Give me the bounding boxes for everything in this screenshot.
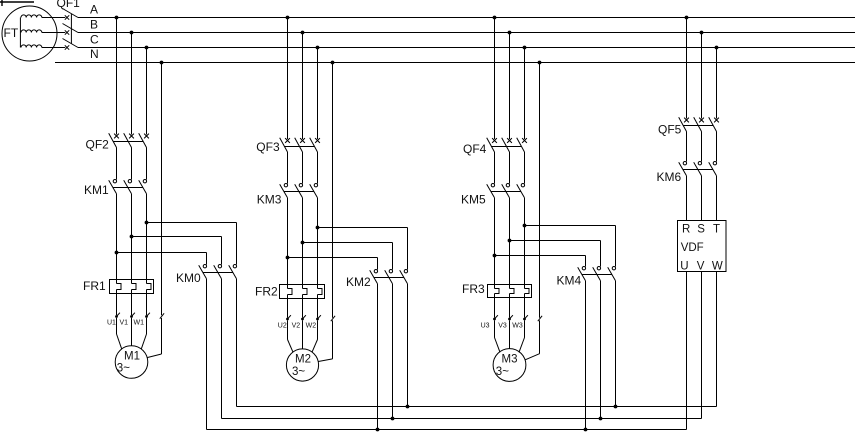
wire bus U bottom (207, 429, 687, 431)
circuit breaker QF5 (658, 117, 719, 136)
svg-text:A: A (90, 3, 98, 17)
frame corner mark (0, 0, 34, 6)
node branch3 A tap (493, 16, 497, 20)
node M1 terminals U1 V1 W1 (107, 313, 150, 327)
wire branch3 phase A drop (494, 18, 496, 140)
wire QF5 to KM6 (687, 132, 717, 162)
circuit breaker QF1 (57, 0, 81, 50)
wire bus C (78, 33, 855, 48)
svg-text:M3: M3 (502, 354, 518, 366)
wire VDF V output (701, 271, 703, 419)
node branch2 N slash (331, 316, 335, 321)
circuit breaker QF2 (86, 133, 149, 151)
wire VDF U output (686, 271, 688, 430)
wire VDF W output (716, 271, 718, 407)
svg-text:M1: M1 (124, 351, 140, 363)
svg-text:FT: FT (4, 26, 19, 40)
wire branch3 A to KM4 pole1 (495, 256, 586, 267)
wire M1 leads (117, 318, 147, 349)
svg-text:U: U (680, 261, 688, 273)
wire branch2 phase C drop (317, 48, 319, 140)
node branch1 A tap (115, 16, 119, 20)
svg-text:KM1: KM1 (84, 183, 109, 197)
wire M3 leads (495, 320, 525, 352)
svg-text:W: W (712, 261, 723, 273)
node branch1 B tap (130, 31, 134, 35)
wire branch3 phase B drop (509, 33, 511, 140)
svg-text:QF1: QF1 (57, 0, 81, 10)
svg-text:V: V (697, 261, 705, 273)
wire KM1 to FR1 (117, 194, 147, 284)
node KM2-V junction (391, 417, 395, 421)
node branch3 tap C2 (523, 224, 527, 228)
node branch2 tap C2 (316, 226, 320, 230)
contactor KM1 (84, 180, 147, 198)
svg-text:W3: W3 (512, 323, 523, 330)
wire bus N (55, 47, 855, 63)
wire QF4 to KM5 (495, 152, 525, 184)
node branch3 N slash (538, 316, 542, 321)
wire branch1 phase B drop (131, 33, 133, 135)
motor M3 (493, 349, 526, 382)
node branch1 C tap (145, 46, 149, 50)
node branch2 A tap (286, 16, 290, 20)
svg-text:KM3: KM3 (257, 193, 282, 207)
node branch2 N tap (331, 61, 335, 65)
node KM4-V junction (599, 417, 603, 421)
svg-text:N: N (90, 47, 99, 61)
svg-text:KM6: KM6 (657, 170, 682, 184)
svg-text:U1: U1 (107, 320, 116, 327)
wire branch1 phase C drop (146, 48, 148, 135)
svg-text:KM2: KM2 (346, 275, 371, 289)
overload relay FR2 (255, 285, 325, 299)
svg-text:KM4: KM4 (557, 274, 582, 288)
svg-text:QF5: QF5 (658, 123, 682, 137)
node M2 terminals U2 V2 W2 (278, 315, 321, 329)
VFD drive VDF (678, 221, 727, 273)
contactor KM2 (346, 270, 408, 290)
node branch3 B tap (508, 31, 512, 35)
wire KM6 to VDF (687, 176, 717, 221)
node KM4-W junction (614, 405, 618, 409)
svg-text:T: T (713, 224, 720, 236)
wire bus W bottom (237, 406, 717, 408)
svg-text:FR3: FR3 (462, 282, 485, 296)
contactor KM4 (557, 267, 616, 288)
wire branch1 neutral drop (161, 63, 163, 316)
node branch3 C tap (523, 46, 527, 50)
wire KM4 outputs (586, 281, 616, 430)
wire QF2 to KM1 (117, 148, 147, 180)
wire KM5 to FR3 (495, 198, 525, 289)
svg-text:V3: V3 (498, 323, 507, 330)
circuit breaker QF4 (463, 138, 527, 156)
wire M2 leads (288, 320, 318, 352)
svg-text:FR1: FR1 (83, 279, 106, 293)
svg-text:W1: W1 (134, 320, 145, 327)
wire branch3 neutral drop (539, 63, 541, 318)
node branch3 tap B2 (508, 239, 512, 243)
node KM2-U junction (376, 428, 380, 432)
svg-text:3~: 3~ (292, 366, 305, 378)
node branch3 tap A2 (493, 254, 497, 258)
svg-text:V1: V1 (120, 320, 129, 327)
wire branch2 phase B drop (302, 33, 304, 140)
node branch2 C tap (316, 46, 320, 50)
svg-text:QF2: QF2 (86, 137, 110, 151)
wire branch4 phase C drop (716, 48, 718, 119)
svg-text:VDF: VDF (681, 242, 704, 254)
circuit breaker QF3 (256, 138, 320, 155)
wire branch1 A to KM0 pole1 (117, 253, 207, 265)
overload relay FR3 (462, 282, 532, 298)
contactor KM0 (176, 265, 237, 286)
wire bus V bottom (222, 418, 702, 420)
svg-text:QF3: QF3 (256, 140, 280, 154)
svg-text:V2: V2 (292, 323, 301, 330)
wire branch1 phase A drop (116, 18, 118, 135)
node branch1 N tap (160, 61, 164, 65)
node branch1 tap A2 (115, 251, 119, 255)
node branch2 tap B2 (301, 241, 305, 245)
wire bus B (78, 18, 855, 33)
svg-text:FR2: FR2 (255, 285, 278, 299)
wire branch4 phase A drop (686, 18, 688, 119)
wire branch4 phase B drop (701, 33, 703, 119)
svg-text:M2: M2 (295, 354, 311, 366)
node branch2 tap A2 (286, 256, 290, 260)
node branch2 B tap (301, 31, 305, 35)
svg-text:KM5: KM5 (461, 192, 486, 206)
svg-text:R: R (682, 224, 690, 236)
wire branch3 C to KM4 pole3 (525, 226, 616, 267)
node KM2-W junction (406, 405, 410, 409)
node branch1 tap C2 (145, 221, 149, 225)
wire branch2 B to KM2 pole2 (303, 243, 393, 270)
wire branch2 A to KM2 pole1 (288, 258, 378, 270)
contactor KM6 (657, 162, 717, 185)
svg-text:KM0: KM0 (176, 271, 201, 285)
contactor KM3 (257, 184, 318, 207)
wire KM3 to FR2 (288, 198, 318, 289)
wire QF3 to KM3 (288, 152, 318, 184)
motor M2 (286, 349, 318, 381)
svg-text:QF4: QF4 (463, 142, 487, 156)
node branch3 N tap (538, 61, 542, 65)
wire KM2 outputs (378, 284, 408, 430)
wire branch1 C to KM0 pole3 (147, 223, 237, 265)
wire bus A (78, 3, 855, 18)
node branch1 N slash (160, 313, 164, 318)
wire FR3 to M3 terminals (495, 294, 525, 318)
node M3 terminals U3 V3 W3 (481, 315, 528, 329)
wire branch3 phase C drop (524, 48, 526, 140)
wire branch2 N to M2 (318, 320, 332, 361)
contactor KM5 (461, 184, 525, 207)
node branch4 C tap (715, 46, 719, 50)
generator FT (2, 6, 65, 61)
svg-text:3~: 3~ (496, 366, 509, 378)
wire branch2 phase A drop (287, 18, 289, 140)
wire branch2 neutral drop (332, 63, 334, 318)
wire FR2 to M2 terminals (288, 295, 318, 318)
wire branch3 B to KM4 pole2 (510, 241, 601, 267)
motor M1 (115, 346, 148, 379)
wire branch2 C to KM2 pole3 (318, 228, 408, 270)
node branch4 B tap (700, 31, 704, 35)
svg-text:U2: U2 (278, 323, 287, 330)
svg-text:S: S (697, 224, 705, 236)
overload relay FR1 (83, 279, 154, 294)
wire branch1 B to KM0 pole2 (132, 237, 222, 265)
wire KM0 outputs (207, 279, 237, 430)
wire FR1 to M1 terminals (117, 290, 147, 316)
node KM4-U junction (584, 428, 588, 432)
node branch4 A tap (685, 16, 689, 20)
svg-text:W2: W2 (306, 323, 317, 330)
wire branch3 N to M3 (525, 320, 539, 359)
svg-text:B: B (90, 18, 98, 32)
svg-text:3~: 3~ (117, 363, 130, 375)
svg-text:C: C (90, 33, 99, 47)
node branch1 tap B2 (130, 235, 134, 239)
wire branch1 N to M1 (148, 318, 162, 358)
svg-text:U3: U3 (481, 323, 490, 330)
